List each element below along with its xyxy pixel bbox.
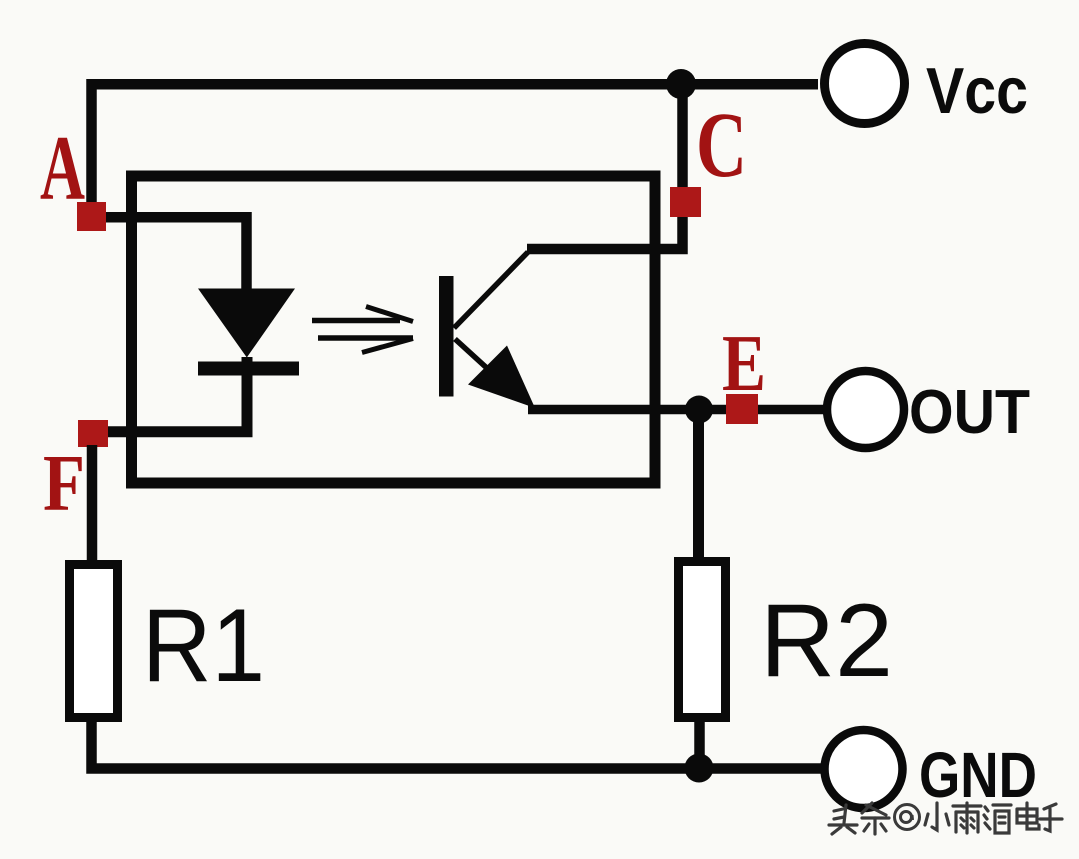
terminal square A (77, 202, 106, 231)
terminal OUT (827, 371, 904, 448)
wire C branch (junction down to collector line) (527, 84, 683, 249)
svg-text:GND: GND (919, 739, 1037, 811)
svg-text:E: E (722, 320, 766, 408)
wire R2 to GND node (694, 714, 705, 768)
svg-text:F: F (43, 440, 85, 528)
wire F to R1 (87, 445, 98, 564)
svg-text:Vcc: Vcc (926, 54, 1028, 127)
terminal GND (825, 730, 903, 808)
svg-text:C: C (696, 94, 747, 197)
terminal Vcc (825, 44, 905, 124)
terminal square E (726, 394, 758, 424)
Q1 emitter lead (455, 339, 523, 401)
light arrow upper (312, 307, 413, 322)
wire LED cathode to F (100, 357, 247, 432)
svg-text:OUT: OUT (909, 378, 1030, 447)
node E junction (685, 396, 713, 424)
optocoupler box U1 (132, 176, 656, 483)
watermark 头条 @小雨滴电子 (829, 803, 889, 834)
node top junction (666, 69, 696, 99)
wire top rail (left vertical + top horizontal to Vcc) (92, 84, 819, 210)
Q1 collector lead (454, 252, 528, 328)
resistor R1 (70, 565, 118, 718)
wire bottom rail (92, 714, 825, 769)
phototransistor Q1 base bar (439, 276, 454, 397)
resistor R2 (679, 562, 726, 718)
light arrow lower (318, 338, 413, 353)
LED D1 cathode bar (198, 362, 299, 376)
Q1 emitter arrowhead (468, 346, 535, 409)
terminal square F (78, 420, 108, 447)
svg-text:R2: R2 (760, 583, 893, 699)
wire A to LED anode (100, 217, 247, 292)
LED D1 triangle (198, 289, 295, 358)
terminal square C (670, 187, 701, 217)
svg-text:A: A (40, 117, 85, 219)
wire emitter to OUT (528, 405, 826, 415)
node GND junction (685, 754, 714, 783)
wire E branch down to R2 (693, 410, 704, 563)
svg-text:R1: R1 (142, 588, 265, 704)
